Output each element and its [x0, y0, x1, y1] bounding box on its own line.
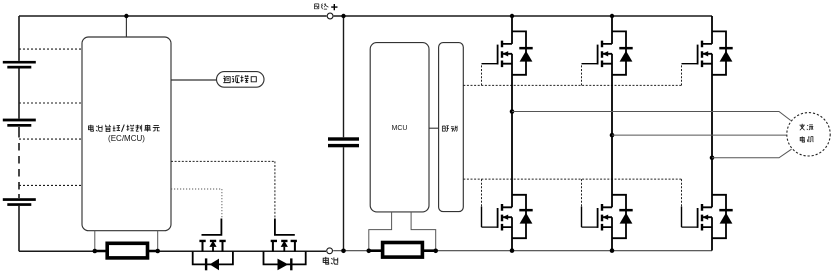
svg-text:(EC/MCU): (EC/MCU)	[108, 134, 145, 143]
svg-text:MCU: MCU	[392, 125, 408, 132]
